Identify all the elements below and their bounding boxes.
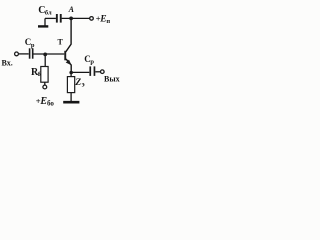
svg-text:р: р [90,59,94,66]
svg-text:р: р [31,42,35,49]
svg-text:э: э [82,81,85,89]
svg-text:бо: бо [47,99,54,107]
svg-text:Z: Z [74,78,81,88]
svg-text:бл: бл [45,10,52,17]
svg-text:A: A [68,5,75,14]
svg-text:Т: Т [58,38,64,47]
svg-text:п: п [106,18,110,25]
svg-text:Вх.: Вх. [2,59,13,68]
svg-text:Вых: Вых [104,74,120,83]
